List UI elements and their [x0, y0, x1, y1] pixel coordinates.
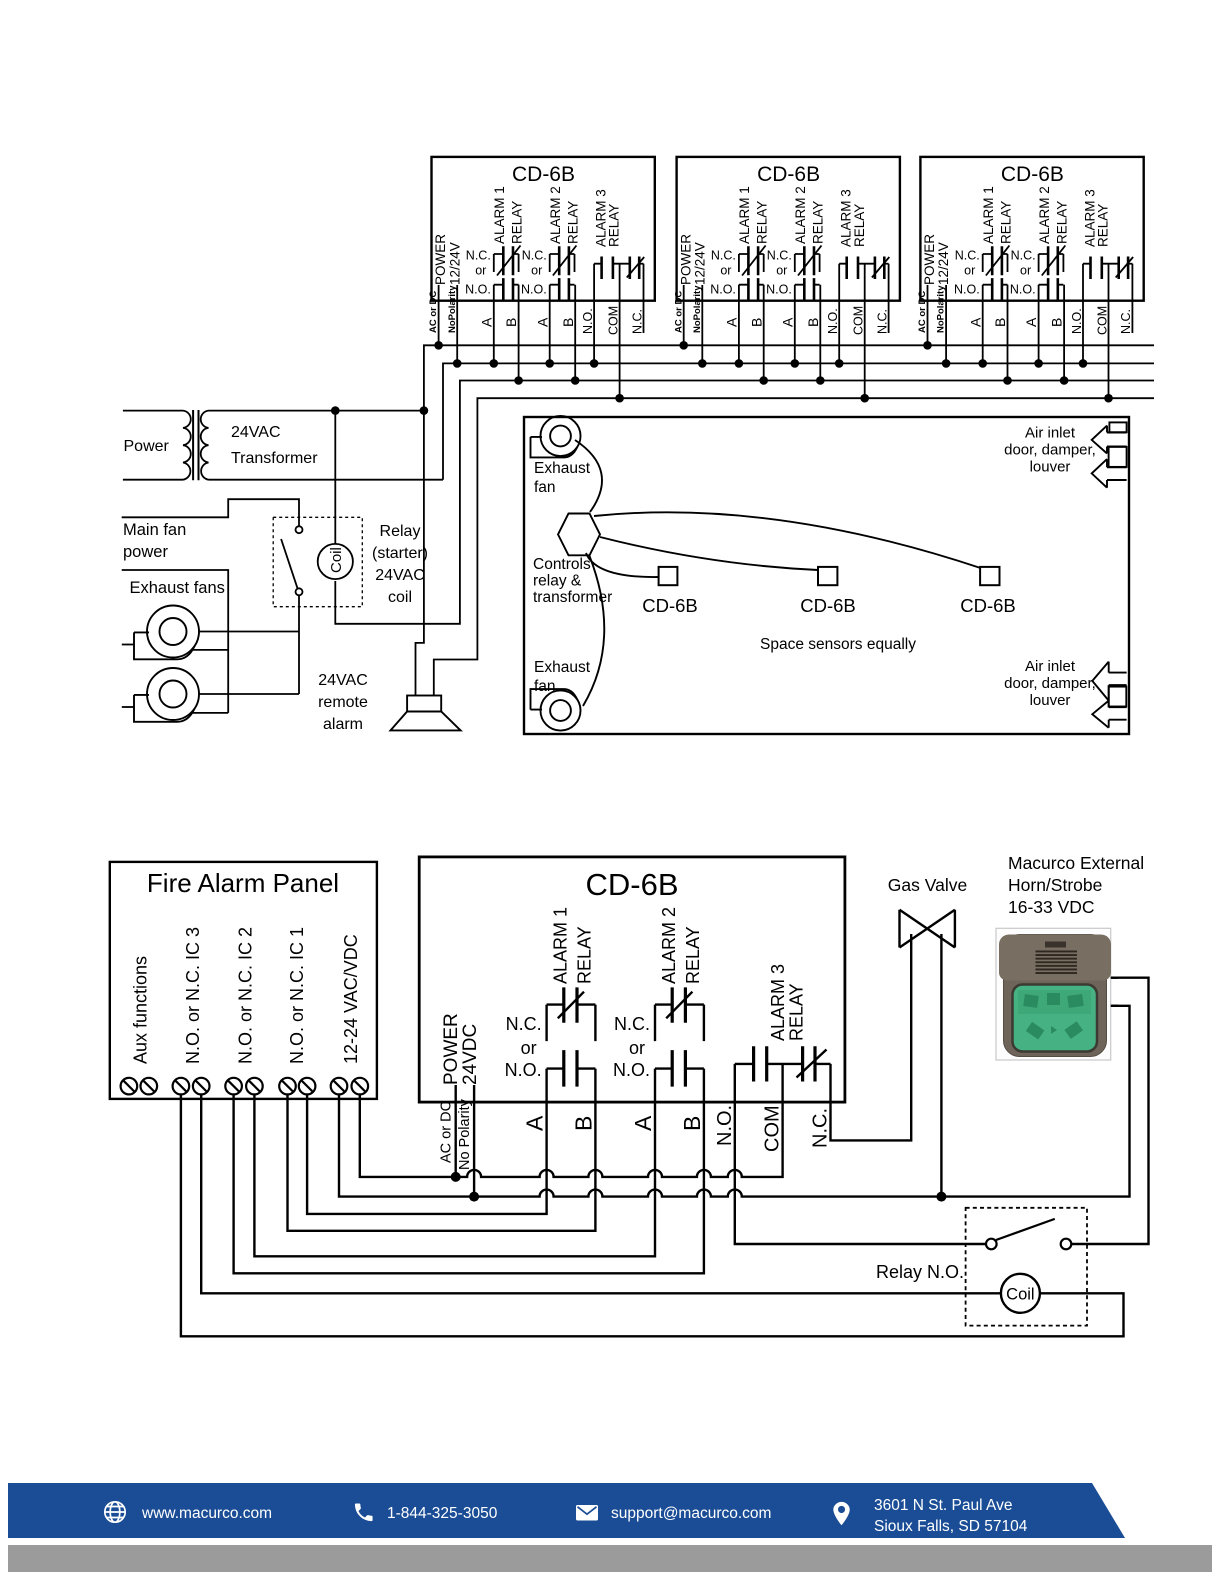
curve hexagon to bottom fan: [583, 556, 604, 706]
wire relay coil right back to panel IC3 left: [181, 1094, 1124, 1336]
svg-text:or: or: [720, 264, 731, 278]
relay K1 N.C. contact (bottom): [547, 1005, 596, 1042]
svg-text:24VAC: 24VAC: [375, 567, 425, 584]
wire power NoPolarity terminal to bus2 U2: [701, 285, 703, 363]
wire B2 terminal to bus3 U3: [1063, 285, 1065, 381]
wire B1 terminal to bus3 U2: [763, 285, 765, 381]
svg-text:A: A: [1023, 317, 1039, 327]
svg-text:(starter): (starter): [372, 545, 428, 562]
wire A2 terminal to bus2 U3: [1038, 285, 1040, 364]
svg-text:RELAY: RELAY: [565, 201, 580, 244]
junction power No Polarity: [469, 1192, 479, 1202]
svg-text:door, damper,: door, damper,: [1004, 675, 1096, 692]
svg-text:or: or: [1020, 264, 1031, 278]
sensor square 3: [980, 567, 999, 585]
svg-text:Sioux Falls, SD 57104: Sioux Falls, SD 57104: [874, 1518, 1028, 1535]
footer grey bar: [8, 1545, 1212, 1572]
svg-text:ALARM 2: ALARM 2: [548, 186, 563, 244]
svg-text:POWER: POWER: [922, 234, 937, 285]
CD-6B main box (bottom): [419, 857, 845, 1102]
wire A2 terminal to bus2 U2: [794, 285, 796, 364]
external relay switch right contact: [1061, 1239, 1072, 1250]
svg-text:Air inlet: Air inlet: [1025, 425, 1076, 442]
svg-text:POWER: POWER: [678, 234, 693, 285]
svg-text:ALARM 3: ALARM 3: [768, 964, 788, 1041]
svg-text:N.O. or N.C. IC 3: N.O. or N.C. IC 3: [183, 927, 203, 1064]
bus line 1 (AC power A) with left drop to transformer top and remote alarm: [416, 345, 1155, 695]
svg-text:A: A: [724, 317, 740, 327]
svg-text:door, damper,: door, damper,: [1004, 442, 1096, 459]
svg-text:1-844-325-3050: 1-844-325-3050: [387, 1505, 498, 1522]
fan M2 wires: [191, 694, 299, 713]
transformer T1 core: [193, 410, 198, 480]
svg-text:N.O.: N.O.: [710, 283, 736, 297]
relay K2 N.O. contact U2: [795, 284, 820, 286]
svg-text:Exhaust fans: Exhaust fans: [130, 579, 225, 597]
svg-text:RELAY: RELAY: [811, 201, 826, 244]
svg-text:N.O.: N.O.: [521, 283, 547, 297]
svg-text:NoPolarity: NoPolarity: [936, 285, 947, 333]
svg-text:24VAC: 24VAC: [231, 424, 281, 441]
svg-text:A: A: [534, 317, 550, 327]
svg-text:3601 N St. Paul Ave: 3601 N St. Paul Ave: [874, 1497, 1012, 1514]
wire power NoPolarity terminal to bus2 U3: [945, 285, 947, 363]
remote alarm horn cone: [391, 712, 461, 731]
svg-text:N.O.: N.O.: [581, 308, 595, 334]
globe icon: [105, 1502, 125, 1522]
wire exhaust fans feeder: [122, 570, 229, 713]
svg-text:Aux functions: Aux functions: [130, 956, 150, 1064]
svg-text:N.C.: N.C.: [810, 1108, 832, 1148]
junction node transformer top to bus1: [420, 406, 429, 415]
fan M1 stub: [122, 644, 134, 646]
wire power AC terminal to bus1 U2: [683, 285, 685, 345]
svg-text:Transformer: Transformer: [231, 450, 318, 467]
svg-text:12/24V: 12/24V: [447, 242, 462, 285]
stub N.C. terminal U2: [888, 264, 890, 333]
stub N.C. terminal U3: [1131, 264, 1133, 333]
wire power No Polarity down: [473, 1085, 475, 1197]
wire A1 terminal to bus2 U1: [493, 285, 495, 364]
svg-text:RELAY: RELAY: [683, 926, 703, 984]
wire switch to exhaust fan motors: [298, 595, 300, 694]
wire panel IC2 right to A2: [254, 1094, 655, 1256]
svg-text:AC or DC: AC or DC: [917, 291, 928, 333]
svg-text:support@macurco.com: support@macurco.com: [611, 1505, 771, 1522]
svg-text:12/24V: 12/24V: [692, 242, 707, 285]
relay K3 N.C. contact U3: [1128, 263, 1132, 265]
svg-text:N.O.: N.O.: [465, 283, 491, 297]
svg-text:24VAC: 24VAC: [318, 672, 368, 689]
controls hexagon: [558, 514, 600, 556]
junction node transformer top to coil: [331, 406, 340, 415]
svg-text:fan: fan: [534, 479, 556, 496]
svg-text:N.C.: N.C.: [875, 309, 889, 334]
relay K1 N.O. contact U1: [494, 284, 519, 286]
svg-text:N.C.: N.C.: [506, 1014, 542, 1034]
wire COM terminal to bus4 U3: [1108, 264, 1110, 399]
svg-text:Gas Valve: Gas Valve: [888, 875, 967, 895]
panel screw terminals: [121, 1078, 138, 1095]
relay K3 N.O. contact (bottom): [735, 1064, 803, 1102]
horn/strobe body: [1004, 935, 1107, 1057]
svg-text:coil: coil: [388, 589, 412, 606]
main fan power wire to switch: [122, 499, 299, 526]
curve hexagon to sensor 1: [586, 553, 659, 577]
sensor square 2: [818, 567, 837, 585]
CD-6B transducer box U3: [920, 157, 1143, 301]
bus line 4 with left drop to remote alarm right terminal: [434, 398, 1154, 695]
wire B2 terminal to bus3 U2: [819, 285, 821, 381]
wire panel IC1 right to A1: [307, 1094, 546, 1214]
relay switch blade: [281, 539, 297, 588]
transformer T1 secondary winding: [201, 411, 209, 480]
svg-text:ALARM 1: ALARM 1: [492, 186, 507, 244]
svg-text:RELAY: RELAY: [1054, 201, 1069, 244]
svg-text:CD-6B: CD-6B: [800, 595, 856, 616]
svg-text:Main fan: Main fan: [123, 521, 186, 539]
svg-text:RELAY: RELAY: [575, 926, 595, 984]
svg-text:RELAY: RELAY: [510, 201, 525, 244]
relay K3 N.C. contact U1: [639, 263, 643, 265]
relay K1 N.O. contact (bottom): [547, 1069, 596, 1103]
relay K1 N.C. contact U1: [494, 254, 519, 272]
svg-text:or: or: [629, 1038, 645, 1058]
svg-text:relay &: relay &: [533, 573, 582, 590]
relay K1 N.O. contact U3: [983, 284, 1008, 286]
svg-text:POWER: POWER: [441, 1013, 462, 1085]
junction dots U1: [434, 341, 443, 350]
wire B1 terminal to bus3 U1: [518, 285, 520, 381]
relay starter coil: [318, 544, 353, 579]
horn/strobe strobe lens: [1013, 985, 1098, 1052]
transformer T1 primary leads: [123, 411, 183, 480]
svg-text:N.C.: N.C.: [522, 249, 547, 263]
svg-text:N.O.: N.O.: [505, 1060, 542, 1080]
svg-text:Relay N.O.: Relay N.O.: [876, 1262, 964, 1282]
relay K1 N.C. contact U3: [983, 254, 1008, 272]
wire panel IC2 left to B2: [234, 1094, 704, 1273]
svg-text:Coil: Coil: [1006, 1286, 1034, 1304]
junction dots U2: [679, 341, 688, 350]
svg-text:N.O.: N.O.: [1010, 283, 1036, 297]
relay K2 N.C. contact U2: [795, 254, 820, 272]
curve hexagon to sensor 3: [594, 512, 981, 568]
relay K1 N.O. contact U2: [739, 284, 764, 286]
svg-text:N.C.: N.C.: [711, 249, 736, 263]
svg-text:Exhaust: Exhaust: [534, 659, 591, 676]
svg-text:Power: Power: [124, 438, 170, 455]
location pin icon: [833, 1502, 849, 1525]
svg-text:N.C.: N.C.: [466, 249, 491, 263]
svg-text:CD-6B: CD-6B: [960, 595, 1016, 616]
CD-6B transducer box U1: [432, 157, 655, 301]
horn/strobe photo frame: [996, 928, 1111, 1060]
svg-text:B: B: [560, 318, 576, 327]
room exhaust fan bottom: [540, 690, 580, 730]
curve hexagon to top fan: [575, 440, 602, 512]
svg-text:CD-6B: CD-6B: [642, 595, 698, 616]
svg-text:B: B: [748, 318, 764, 327]
svg-text:CD-6B: CD-6B: [757, 163, 820, 186]
svg-text:A: A: [630, 1115, 656, 1131]
relay K3 N.O. contact U1: [594, 263, 630, 265]
svg-text:or: or: [964, 264, 975, 278]
relay contact dashed enclosure: [273, 517, 362, 606]
svg-text:Coil: Coil: [328, 547, 345, 573]
svg-text:N.C.: N.C.: [1011, 249, 1036, 263]
svg-text:A: A: [779, 317, 795, 327]
svg-text:Space sensors equally: Space sensors equally: [760, 636, 916, 653]
svg-text:16-33 VDC: 16-33 VDC: [1008, 897, 1095, 917]
wire A2 terminal to bus2 U1: [549, 285, 551, 364]
svg-text:B: B: [679, 1116, 705, 1131]
svg-text:B: B: [570, 1116, 596, 1131]
svg-text:N.O.: N.O.: [826, 308, 840, 334]
svg-text:RELAY: RELAY: [998, 201, 1013, 244]
svg-text:B: B: [1049, 318, 1065, 327]
wire N.O. terminal to bus2 U1: [593, 264, 595, 364]
fan M1 wires: [191, 632, 299, 650]
horn/strobe lens markings: [1023, 993, 1084, 1040]
svg-text:RELAY: RELAY: [787, 983, 807, 1041]
wire panel IC1 left to B1: [288, 1094, 596, 1230]
svg-text:louver: louver: [1030, 459, 1071, 476]
bus line 2 (AC power B) with left drop to transformer bottom: [443, 363, 1154, 479]
envelope icon: [576, 1505, 598, 1521]
svg-text:CD-6B: CD-6B: [585, 867, 678, 902]
bus line 3 with left drop to relay coil bottom: [335, 381, 1154, 624]
relay K2 N.O. contact (bottom): [655, 1069, 704, 1103]
external relay switch left contact: [986, 1239, 997, 1250]
wire A1 terminal to bus2 U2: [738, 285, 740, 364]
svg-text:remote: remote: [318, 694, 368, 711]
horn/strobe speaker grille: [1036, 951, 1078, 953]
wire COM terminal to bus4 U2: [864, 264, 866, 399]
svg-text:N.O.: N.O.: [613, 1060, 650, 1080]
svg-text:AC or DC: AC or DC: [428, 291, 439, 333]
svg-text:Horn/Strobe: Horn/Strobe: [1008, 875, 1102, 895]
svg-text:NoPolarity: NoPolarity: [447, 285, 458, 333]
svg-text:Fire Alarm Panel: Fire Alarm Panel: [147, 868, 339, 898]
horn/strobe wire stubs: [1111, 978, 1118, 1006]
wire coil top to transformer top: [334, 411, 336, 544]
wire A1 terminal to bus2 U3: [982, 285, 984, 364]
svg-text:RELAY: RELAY: [1096, 204, 1111, 247]
svg-text:ALARM 2: ALARM 2: [1037, 186, 1052, 244]
svg-text:AC or DC: AC or DC: [439, 1101, 455, 1163]
wire power NoPolarity terminal to bus2 U1: [456, 285, 458, 363]
svg-text:AC or DC: AC or DC: [673, 291, 684, 333]
relay K3 N.C. contact (bottom): [815, 1064, 831, 1102]
svg-text:COM: COM: [1095, 306, 1109, 335]
external relay coil: [1001, 1274, 1040, 1313]
exhaust fan motor M2: [147, 668, 199, 720]
wire panel 12-24 right to power AC and COM: [360, 1094, 783, 1177]
svg-text:N.C.: N.C.: [767, 249, 792, 263]
fan M2 stub: [122, 706, 134, 708]
svg-text:or: or: [521, 1038, 537, 1058]
transformer T1 primary winding: [183, 411, 191, 480]
wire B2 terminal to bus3 U1: [574, 285, 576, 381]
wire N.O. terminal to bus2 U3: [1082, 264, 1084, 364]
external relay switch blade: [996, 1219, 1055, 1240]
relay K2 N.O. contact U1: [550, 284, 575, 286]
room exhaust fan top: [540, 416, 580, 456]
svg-text:Air inlet: Air inlet: [1025, 658, 1076, 675]
svg-text:N.C.: N.C.: [630, 309, 644, 334]
wire switch right to horn/strobe: [1071, 978, 1148, 1244]
svg-text:RELAY: RELAY: [852, 204, 867, 247]
svg-text:or: or: [531, 264, 542, 278]
wire panel 12-24 left to No Polarity and horn/gas-valve: [339, 1006, 1130, 1197]
transformer T1 secondary bottom lead: [209, 479, 444, 481]
relay K1 N.C. contact U2: [739, 254, 764, 272]
svg-text:Controls: Controls: [533, 556, 591, 573]
svg-text:ALARM 1: ALARM 1: [981, 186, 996, 244]
relay K2 N.C. contact (bottom): [655, 1005, 704, 1042]
wire power AC terminal to bus1 U1: [438, 285, 440, 345]
air inlet arrows top: [1109, 422, 1126, 432]
Fire Alarm Panel box: [110, 862, 377, 1099]
svg-text:www.macurco.com: www.macurco.com: [141, 1505, 272, 1522]
svg-text:POWER: POWER: [433, 234, 448, 285]
svg-text:B: B: [992, 318, 1008, 327]
svg-text:N.C.: N.C.: [1119, 309, 1133, 334]
svg-text:N.O.: N.O.: [954, 283, 980, 297]
relay K3 N.O. contact U2: [839, 263, 875, 265]
svg-text:RELAY: RELAY: [755, 201, 770, 244]
svg-text:COM: COM: [606, 306, 620, 335]
svg-text:12/24V: 12/24V: [936, 242, 951, 285]
wire power AC terminal down: [455, 1085, 457, 1177]
svg-text:power: power: [123, 543, 168, 561]
junction power AC: [451, 1172, 461, 1182]
svg-text:ALARM 2: ALARM 2: [793, 186, 808, 244]
svg-text:B: B: [805, 318, 821, 327]
horn/strobe logo mark: [1045, 942, 1066, 948]
relay switch contact bottom: [296, 588, 303, 595]
gas valve symbol: [900, 910, 955, 948]
junction dots U3: [923, 341, 932, 350]
svg-text:A: A: [522, 1115, 548, 1131]
wire COM terminal to bus4 U1: [619, 264, 621, 399]
svg-text:alarm: alarm: [323, 716, 363, 733]
svg-text:N.O. or N.C. IC 1: N.O. or N.C. IC 1: [287, 927, 307, 1064]
room enclosure: [524, 417, 1129, 734]
svg-text:NoPolarity: NoPolarity: [692, 285, 703, 333]
svg-text:RELAY: RELAY: [607, 204, 622, 247]
wire N.O. terminal to external relay switch: [735, 1102, 986, 1244]
svg-text:louver: louver: [1030, 692, 1071, 709]
svg-text:ALARM 1: ALARM 1: [737, 186, 752, 244]
phone icon: [355, 1503, 373, 1521]
svg-text:Exhaust: Exhaust: [534, 460, 591, 477]
svg-text:B: B: [503, 318, 519, 327]
relay K2 N.C. contact U3: [1039, 254, 1064, 272]
transformer T1 secondary top lead: [209, 410, 424, 412]
svg-text:Macurco External: Macurco External: [1008, 853, 1144, 873]
external relay dashed enclosure: [966, 1208, 1087, 1326]
svg-text:or: or: [776, 264, 787, 278]
relay K2 N.O. contact U3: [1039, 284, 1064, 286]
junction gas valve to power: [936, 1192, 946, 1202]
air inlet arrows bottom: [1092, 662, 1126, 701]
stub N.C. terminal U1: [643, 264, 645, 333]
svg-text:ALARM 1: ALARM 1: [551, 907, 571, 984]
svg-text:12-24 VAC/VDC: 12-24 VAC/VDC: [341, 934, 361, 1064]
wire N.C. terminal to gas valve: [831, 934, 912, 1140]
svg-text:N.O.: N.O.: [714, 1105, 736, 1146]
relay K3 N.O. contact U3: [1083, 263, 1119, 265]
exhaust fan motor M1: [147, 606, 199, 658]
relay switch contact top: [296, 526, 303, 533]
svg-text:N.O.: N.O.: [766, 283, 792, 297]
wire power AC terminal to bus1 U3: [927, 285, 929, 345]
relay K3 N.C. contact U2: [884, 263, 888, 265]
footer blue banner: [8, 1483, 1125, 1538]
svg-text:or: or: [475, 264, 486, 278]
remote alarm horn body: [407, 696, 441, 712]
wire N.O. terminal to bus2 U2: [838, 264, 840, 364]
wire gas valve to power bus: [940, 934, 942, 1197]
svg-text:N.C.: N.C.: [955, 249, 980, 263]
svg-text:COM: COM: [762, 1105, 784, 1152]
svg-text:N.O. or N.C. IC 2: N.O. or N.C. IC 2: [236, 927, 256, 1064]
wire panel IC3 right to relay coil left: [201, 1094, 1001, 1293]
CD-6B transducer box U2: [677, 157, 900, 301]
svg-text:CD-6B: CD-6B: [1001, 163, 1064, 186]
svg-text:Relay: Relay: [380, 523, 421, 540]
svg-text:24VDC: 24VDC: [460, 1024, 481, 1085]
curve hexagon to sensor 2: [600, 537, 818, 570]
svg-text:A: A: [478, 317, 494, 327]
svg-text:CD-6B: CD-6B: [512, 163, 575, 186]
wire B1 terminal to bus3 U3: [1007, 285, 1009, 381]
svg-text:A: A: [967, 317, 983, 327]
svg-text:N.O.: N.O.: [1070, 308, 1084, 334]
svg-text:N.C.: N.C.: [614, 1014, 650, 1034]
svg-text:ALARM 2: ALARM 2: [659, 907, 679, 984]
sensor square 1: [659, 567, 678, 585]
svg-text:No Polarity: No Polarity: [457, 1098, 473, 1170]
relay K2 N.C. contact U1: [550, 254, 575, 272]
svg-text:COM: COM: [852, 306, 866, 335]
